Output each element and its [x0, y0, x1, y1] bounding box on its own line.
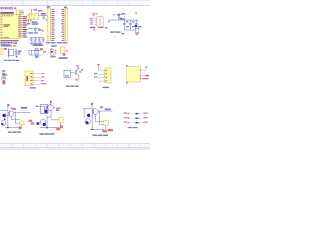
- R1 lower pin stub: [27, 20, 30, 23]
- power flag VCC above U2: [31, 9, 33, 13]
- blue value text below U2 row 1: [32, 21, 38, 22]
- red junction dot: [42, 30, 44, 31]
- USB pin net labels: [90, 18, 94, 25]
- red dash left of J4: [51, 48, 52, 49]
- wire driver2 left: [38, 105, 45, 107]
- push button SW1: [35, 49, 39, 54]
- net label on +5V rail: [120, 18, 125, 19]
- wire to R5 pin2: [15, 122, 20, 124]
- component box U3: [64, 70, 70, 77]
- label below LED rows: [128, 127, 138, 128]
- red dash right of Q5: [79, 71, 82, 72]
- blue label on U2 output wire: [41, 13, 46, 14]
- J2 name label below: [30, 87, 36, 88]
- net label USB data pair: [110, 31, 121, 32]
- blue net label Q3 output: [56, 110, 59, 111]
- transistor Q5: [76, 67, 79, 78]
- SW1 red name label: [40, 48, 43, 50]
- header P2 body: [65, 8, 68, 41]
- C3 value label: [132, 21, 135, 22]
- label above jumper J4: [51, 45, 57, 46]
- blue wire stub above U2: [35, 9, 38, 11]
- gray marks of left stack: [1, 76, 6, 79]
- polarized capacitor C5 body: [135, 25, 137, 27]
- transistor Q7: [85, 119, 90, 125]
- wire to R7 pin2: [99, 123, 104, 125]
- junction dot driver1: [4, 119, 6, 120]
- blue mark left end of rail: [108, 21, 109, 23]
- U2 pin number marks: [31, 14, 35, 18]
- component box below C5: [135, 28, 138, 32]
- junction dot driver1 bottom: [7, 127, 8, 128]
- red name label of U2: [38, 10, 43, 12]
- red net label right of R5: [29, 120, 33, 122]
- blue value text below U2 row 2: [32, 23, 39, 24]
- LED indicator row D2 with resistor: [124, 112, 148, 114]
- header P2 bottom label: [57, 42, 67, 43]
- LED indicator row D3 with resistor: [124, 117, 148, 119]
- blue symbol of left stack: [2, 73, 5, 76]
- power dot above driver 1: [7, 104, 9, 106]
- jumper J4 yellow body: [53, 49, 55, 55]
- red label above USB: [92, 13, 95, 14]
- buzzer label below: [59, 57, 68, 59]
- orange marks below R7: [103, 130, 107, 133]
- resistor R6 body: [59, 118, 63, 123]
- U1 right pin net labels: [23, 16, 27, 37]
- blue mark at left end of driver2 wire: [36, 105, 38, 107]
- relay K1 name dot: [126, 65, 128, 66]
- gray bus line above U1: [0, 13, 14, 16]
- wire driver2 elbow: [47, 116, 52, 118]
- small yellow part at left edge: [0, 49, 3, 54]
- R6 pin down: [60, 123, 62, 128]
- J2 pin3 net label: [41, 80, 43, 81]
- power flag above USB pin1: [93, 15, 94, 17]
- wire U2 output: [38, 14, 47, 16]
- net label driver3 output: [105, 109, 111, 111]
- wire driver1 bottom: [5, 127, 21, 129]
- wire crystal left: [7, 48, 9, 58]
- input port flag driver3: [87, 114, 91, 117]
- red text below USB: [98, 27, 104, 28]
- optocoupler U4 box: [41, 105, 49, 114]
- wire driver3 bottom: [90, 128, 104, 130]
- J3 pin2 net label: [94, 73, 97, 74]
- pin number row above U1: [1, 12, 14, 14]
- J2 pin dots: [32, 73, 35, 84]
- driver3 label row: [93, 135, 109, 137]
- wire driver1 output: [14, 111, 31, 113]
- wire decoupling bottom: [31, 41, 43, 43]
- input port symbol driver2: [36, 122, 39, 125]
- capacitor C3: [129, 20, 132, 30]
- R5 pin down: [20, 125, 22, 128]
- wire above C7: [30, 27, 40, 29]
- header P1 pin labels: [50, 9, 55, 41]
- blue dash right of stack: [6, 74, 8, 75]
- power dot above driver 3: [91, 103, 93, 105]
- U1 right inner pin numbers: [18, 16, 20, 37]
- U1 bottom inner pin numbers: [2, 36, 9, 39]
- junction dot below crystal: [16, 56, 17, 57]
- U1 part name text: [4, 24, 11, 27]
- red dash right of buzzer: [66, 50, 68, 51]
- K1 red dash label: [142, 78, 148, 79]
- diode D1 name label: [122, 13, 126, 14]
- C3 name label: [132, 26, 135, 27]
- J2 pin numbers: [30, 73, 32, 84]
- red label right of yellow part: [4, 48, 7, 50]
- resistor R5 body: [20, 121, 24, 125]
- power flag above Q5: [76, 66, 79, 69]
- decoupling caps value labels: [30, 43, 41, 44]
- red mark right of net labels: [14, 7, 16, 9]
- wire drop from output: [14, 112, 16, 123]
- blue marks below SW1: [35, 55, 39, 57]
- red mark below U1: [14, 42, 18, 44]
- power flag above capacitor bank: [135, 12, 137, 15]
- wire power to J3 pin1: [97, 68, 99, 71]
- LED indicator row D4 with resistor: [124, 122, 148, 124]
- wire driver2 vertical 2: [46, 116, 48, 128]
- capacitor C4: [135, 20, 138, 25]
- connector J2 body: [25, 71, 33, 86]
- capacitor C1 symbol top-left: [119, 13, 122, 16]
- red dash above Q6: [100, 106, 103, 108]
- wire button bottom: [32, 54, 42, 56]
- blue net label above U2: [34, 9, 36, 10]
- power dot above driver 2: [50, 101, 52, 103]
- U1 bottom net labels row 3: [1, 44, 11, 45]
- wire decoupling top: [30, 36, 44, 38]
- power flag at K1 pin1: [145, 67, 147, 71]
- net label row above U1 pins (row 1): [1, 7, 14, 9]
- wire driver1 left: [0, 109, 8, 111]
- crystal electrode bars: [15, 50, 17, 56]
- C4 name label below bank: [122, 33, 125, 34]
- USB connector J1 body: [97, 17, 103, 26]
- capacitor C7: [34, 27, 37, 32]
- net label row above U1 pins (row 2): [1, 8, 14, 11]
- U2 left pin stub: [28, 14, 29, 17]
- red mark below U2: [30, 20, 31, 21]
- ground symbol right of C6: [46, 19, 48, 21]
- transistor Q2: [1, 121, 6, 126]
- wire driver3 output: [98, 110, 112, 112]
- wire U3 to Q5: [70, 72, 74, 74]
- C7 name label row: [29, 32, 38, 33]
- J3 pin numbers: [105, 70, 107, 81]
- USB inner slot: [99, 18, 101, 25]
- red symbol below R6: [60, 125, 63, 128]
- red dash above crystal: [13, 45, 16, 46]
- C2 value label: [126, 21, 129, 22]
- wire drop from driver3 output: [98, 111, 100, 125]
- connector J3 body: [105, 68, 111, 83]
- wire capacitor bank bottom: [124, 29, 136, 31]
- input port flag driver1: [2, 114, 8, 118]
- wire driver2 down: [50, 111, 52, 118]
- wire Q6 source down: [95, 114, 97, 121]
- diode D1: [117, 14, 121, 16]
- wire to R5 pin1: [12, 119, 20, 121]
- K1 red net label: [145, 75, 149, 77]
- U1 left inner pin numbers: [1, 16, 3, 35]
- J2 pin4 net label: [41, 83, 46, 84]
- wire driver2 power stem: [50, 103, 52, 107]
- gray dash label A right of U1: [28, 28, 31, 29]
- transistor Q4: [40, 119, 46, 126]
- wire button top: [32, 49, 42, 51]
- crystal Y1 body: [9, 50, 14, 56]
- red dash right of crystal: [19, 51, 22, 52]
- red net label Q3 output: [56, 108, 60, 109]
- R1 red value label: [27, 23, 30, 25]
- gray labels of RN1: [21, 10, 24, 14]
- wire driver3 rail: [91, 105, 93, 130]
- wire driver3 left: [83, 107, 92, 109]
- wire Q3 output: [53, 106, 56, 108]
- red part below buzzer: [63, 53, 66, 55]
- wire to R7 pin1: [96, 120, 104, 122]
- junction dot driver2: [46, 127, 47, 128]
- power flag on diode input: [113, 14, 115, 16]
- pull-up resistor R1: [27, 15, 31, 20]
- button left bracket: [29, 50, 32, 55]
- driver2 label row: [40, 133, 55, 135]
- buzzer LS1 body: [60, 47, 65, 53]
- driver1 label row: [8, 131, 21, 133]
- relay K1 corner dot: [126, 82, 128, 83]
- Q5 circuit label below: [66, 86, 79, 87]
- wire driver3 left vertical: [83, 108, 85, 117]
- wire driver2 vertical: [43, 106, 45, 113]
- sheet frame bottom border: [0, 143, 150, 150]
- regulator U2 body: [29, 13, 38, 19]
- blue mark above USB: [96, 13, 98, 14]
- header P1 body: [47, 8, 50, 41]
- header P2 pin labels: [61, 9, 65, 41]
- blue component marks right of Q1: [11, 107, 13, 110]
- capacitor C2: [123, 20, 126, 30]
- wire driver2 to R6: [51, 119, 59, 121]
- dark port square driver2: [45, 110, 48, 113]
- net label driver1 output: [21, 107, 28, 109]
- wire +5V rail horizontal: [109, 19, 138, 21]
- C2 name label: [126, 26, 129, 27]
- orange marks on driver2 bottom wire: [56, 128, 60, 130]
- J2 pin lines: [33, 74, 41, 85]
- crystal value label row: [4, 60, 19, 61]
- U1 bottom net labels row 1: [1, 40, 13, 41]
- red input label IN2: [31, 122, 34, 124]
- jumper J4 component cluster: [51, 50, 53, 56]
- J2 pin2 net label: [41, 77, 44, 78]
- resistor R7 body: [104, 120, 108, 125]
- gray dash label B right of U1: [28, 32, 31, 33]
- wire Q1 source down: [11, 116, 13, 119]
- resistor network RN1: [17, 10, 21, 15]
- decoupling capacitors C8-C11: [30, 38, 45, 42]
- ground symbol below Q5: [75, 77, 79, 81]
- red polarized cap of left stack: [2, 80, 5, 84]
- J2 inner slot: [27, 76, 28, 81]
- sheet frame top border: [0, 0, 150, 6]
- red dash above Q1: [13, 108, 16, 110]
- J4 pin marks right: [55, 50, 56, 53]
- C5 value label: [138, 26, 141, 27]
- blue marks right of Q5: [81, 69, 83, 71]
- ground symbol below capacitor bank: [135, 33, 139, 36]
- capacitor C6 on U2 output: [42, 15, 45, 19]
- K1 pin dots: [140, 70, 141, 79]
- header P2 name label: [64, 7, 67, 8]
- blue text below USB: [90, 27, 95, 28]
- U1 right pin stubs: [21, 17, 24, 38]
- blue marks right of crystal: [18, 50, 21, 54]
- J3 pin3 net label: [94, 77, 97, 78]
- red mark right of USB ground: [105, 27, 108, 28]
- header P1 bottom label: [46, 42, 55, 43]
- C1 value label: [119, 18, 122, 19]
- C7 value label: [38, 29, 42, 30]
- red net label right of R7: [108, 129, 114, 131]
- J4 label below: [50, 56, 55, 57]
- relay K1 body: [127, 67, 141, 83]
- IC U1 body: [0, 15, 21, 39]
- red label of left stack: [2, 70, 5, 72]
- transistor Q3: [48, 105, 54, 111]
- USB pin stubs: [95, 18, 97, 24]
- label above button SW1: [33, 44, 43, 46]
- junction dot driver3 bottom: [91, 129, 92, 130]
- transistor Q6: [92, 109, 98, 115]
- K1 pin lines: [141, 70, 146, 79]
- transistor Q1: [8, 111, 13, 116]
- component marks driver2: [46, 106, 48, 109]
- wire driver2 bottom: [40, 126, 60, 128]
- power flag above J3: [97, 64, 100, 67]
- J3 pin lines: [99, 70, 105, 81]
- red marks below R5: [19, 127, 22, 130]
- U1 bottom net labels row 2: [1, 42, 13, 43]
- ground symbol below USB: [93, 28, 96, 31]
- wire from diode down: [117, 16, 119, 20]
- blue dash right of bottom labels: [13, 40, 19, 41]
- R7 pin down: [104, 126, 106, 130]
- J3 name label below: [103, 87, 110, 88]
- U1 top inner pin numbers: [2, 14, 12, 17]
- label above crystal: [1, 45, 12, 46]
- header P1 name label: [47, 6, 51, 7]
- red text right of SW1: [43, 51, 46, 53]
- wire driver1 rail: [7, 106, 9, 128]
- J2 pin1 net label: [41, 73, 44, 74]
